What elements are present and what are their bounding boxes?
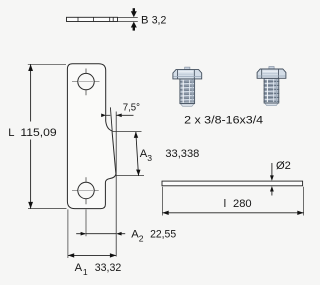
svg-text:l: l — [224, 198, 227, 210]
svg-text:22,55: 22,55 — [150, 228, 176, 240]
svg-text:3,2: 3,2 — [152, 14, 167, 26]
svg-text:2: 2 — [139, 233, 144, 243]
bolt 2 (hex cap screw) — [257, 67, 286, 106]
vertical reference line (tab edge extension) — [115, 112, 117, 257]
svg-text:2 x 3/8-16x3/4: 2 x 3/8-16x3/4 — [184, 115, 263, 127]
bottom hole — [72, 177, 99, 204]
svg-text:A: A — [75, 262, 83, 274]
svg-text:7,5°: 7,5° — [123, 103, 140, 114]
dimension A2 22,55 — [76, 209, 176, 243]
locking plate side view (top) — [67, 17, 118, 21]
dimension L 115,09 (left) — [8, 64, 66, 208]
dimension A3 33,338 — [112, 132, 199, 176]
dimension B 3,2 (plate thickness) — [118, 8, 167, 30]
dimension 7,5 degrees — [101, 103, 140, 118]
dimension A1 33,32 — [68, 209, 121, 277]
bracket (locking plate front view) — [67, 64, 116, 209]
svg-text:33,32: 33,32 — [95, 262, 121, 274]
svg-text:3: 3 — [147, 153, 152, 163]
bent tab edge extended above bend — [110, 107, 112, 131]
dimension l 280 — [162, 187, 303, 216]
svg-text:115,09: 115,09 — [20, 127, 56, 139]
svg-text:Ø2: Ø2 — [276, 160, 291, 172]
svg-text:33,338: 33,338 — [165, 148, 199, 160]
svg-text:L: L — [8, 127, 14, 139]
top hole — [72, 69, 100, 96]
svg-text:B: B — [141, 14, 148, 26]
bolt 1 (hex cap screw) — [173, 67, 202, 106]
svg-text:280: 280 — [233, 198, 252, 210]
svg-text:1: 1 — [83, 267, 88, 277]
dimension diameter 2 — [270, 160, 291, 195]
rod (wire, l 280) — [162, 181, 303, 186]
